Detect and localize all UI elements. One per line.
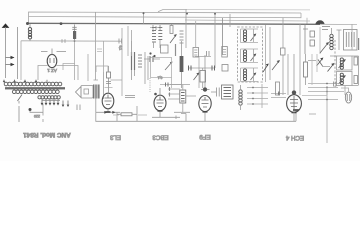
wire EBC3 leads [159,88,161,117]
wire bus right vertical [295,110,297,121]
transformer IFT2 box to EF9 [222,85,234,99]
wire EL3 right rail [111,28,123,96]
component small near speaker [77,105,80,111]
wire vertical x88 [87,54,89,81]
resistor R1 vertical [73,31,76,39]
coil IFT1 winding c [243,69,246,81]
resistor R8 vertical near EBC3 [180,56,184,72]
node bus end [293,109,299,111]
wire AZ1 top lead [41,49,66,55]
wire verticals right of ECH4 [312,54,317,85]
wire EF9 bottom left branch [181,114,186,122]
node EBC3 grid dot [154,93,157,96]
node ECH4 bottom junction [292,112,297,114]
wire C12 link [144,58,160,60]
tube EF9 envelope [199,96,211,112]
resistor R12 stack [310,31,315,37]
plug P1 mains dot [29,108,32,111]
potentiometer VR1 [165,62,172,70]
node EBC3 cathode junction [158,110,163,112]
wire vertical x143.5 [143,13,145,24]
node junction on AVC [214,13,216,15]
capacitor tuning gang C1b arrow [6,64,15,66]
wire speaker leads [96,72,104,112]
transformer T1 secondary HT winding [12,90,59,94]
wire dashed column x150 [149,78,151,92]
wire R1 drop [74,41,76,80]
capacitor tick ECH4 left [278,92,280,96]
node heater left junction [26,22,29,25]
wire EL3 top lead [108,66,110,93]
label tiny by R10 [113,114,147,116]
wire ECH4 leads [293,54,295,121]
resistor R15 vertical below [200,71,206,83]
wire heater line dark [27,23,320,24]
svg-text:ECH 4: ECH 4 [285,134,304,141]
wire y56.5 EF9 top [195,56,211,58]
transformer T2 output hatched [93,85,100,99]
svg-text:ANC Mod. R841: ANC Mod. R841 [23,131,71,138]
node knots detector [149,52,151,54]
switch S1 mains [18,95,23,102]
box rectifier section [38,66,78,81]
capacitor trimmer box ECH4 [281,48,286,55]
arrows on coils [339,60,346,68]
wire plate line top step [158,10,187,12]
wire plug leads [30,104,43,122]
jack pickup right [345,92,351,103]
box IFT1 shield dashed [238,27,263,82]
arrows oscillator section [272,61,279,70]
label column tiny values a [152,28,156,43]
lamp dial lamp [316,20,325,24]
tube ECH4 electrodes [290,96,298,111]
wire coil column leads [240,85,242,110]
label tiny 300 [309,113,316,115]
capacitor C12 [150,56,153,62]
wire vertical x128 x131 [128,26,132,56]
wire terminal rail [261,84,263,108]
antenna A [3,24,9,28]
arrow trimmer mid [170,35,176,43]
arrow small mid [194,74,199,81]
svg-text:EF9: EF9 [199,133,211,140]
resistor R16 left of ECH4 [276,82,280,95]
wire bottom link [96,112,120,121]
node junction R1/y41 [74,40,76,42]
tube EF9 top cap [203,88,207,92]
tube ECH4 top cap [292,91,296,95]
arrow trimmer top right [320,43,328,53]
resistor R9 grid stopper above EL3 [107,72,111,78]
wire R1 leads [74,25,76,42]
wire terminal rows right of ECH4 [308,84,338,100]
wire IFT1 group c frame [241,68,259,82]
box oscillator coil assembly dashed [334,40,336,87]
transformer T1 primary winding [4,82,62,86]
wire heater bus under T1 [42,99,60,101]
wire T1 secondary taps with arrows [42,99,58,105]
resistor R10 horizontal [121,113,132,116]
wire R15 leads [202,68,204,88]
wire x338/345 short [327,86,345,95]
wire jack lead [338,88,349,92]
wire EL3 bottom lead [107,109,109,113]
coil L7 winding [340,73,343,84]
wire antenna lead [5,27,7,78]
capacitor tuning gang C1a arrow [6,57,15,59]
wire links blobs [308,61,330,67]
resistor R4 small [170,26,173,34]
node heater second junction [60,22,63,25]
node EL3 cathode junction [106,111,111,113]
wire y68 link [188,67,215,69]
svg-text:0,1: 0,1 [158,76,163,80]
wire ECH4 grid branch [283,18,288,95]
wire terminal rows right [247,88,268,105]
capacitor IFT1 trimmer arrow b [251,55,256,62]
component marks above EF9 [207,51,210,56]
tube EL3 envelope [102,93,114,109]
arrow marks on speaker return [104,111,107,114]
capacitor C3 marks on y41 [62,39,65,42]
component cluster x150-178 below heater [153,25,160,32]
wire shield inner [63,64,75,71]
capacitor pair on rows [334,82,337,87]
resistor R14 vertical [304,62,308,77]
label EL3 small top mark [105,87,113,89]
svg-text:0,1: 0,1 [118,45,122,50]
coil IFT1 winding a [243,30,246,42]
speaker LS1 frame [81,86,93,99]
node dots on rows [326,83,328,85]
wire x352 vertical [351,24,353,50]
wire VR2 stubs [168,85,196,113]
wire vertical x186 [185,10,187,49]
wire ground rail [17,27,19,79]
wire y84.5 with cap [160,84,182,86]
speaker LS1 magnet [84,89,89,94]
capacitor C8 marks above EL3 [106,82,111,84]
coil antenna choke L1 [28,28,31,40]
svg-text:EBC3: EBC3 [152,134,169,141]
wire vertical x270 [269,27,271,80]
wire top links right coils [330,56,359,86]
coil L5 squiggle [330,34,333,49]
capacitor trimmer box mid [161,45,169,53]
wire x172 drop [171,78,173,89]
wire vertical x103 [103,41,105,72]
tube EL3 electrodes [105,95,112,105]
wire R10 leads [117,106,137,121]
wire y95 link to x327 [302,95,327,97]
svg-text:220: 220 [34,114,40,118]
wire IFT1 group a frame [241,29,259,43]
capacitor trimmer box 1 [193,48,199,58]
wire box1 lead [195,21,197,48]
arrow pair oscillator near ECH4 a [317,59,323,67]
wire R14 leads [305,54,307,85]
wire B+ line [185,20,310,21]
component vertical x175 [175,44,177,56]
transformer T1 heater winding [38,96,60,99]
wire resistor bank leads [132,41,149,84]
svg-text:AZ 1: AZ 1 [47,68,57,73]
coil L6 box [337,56,353,70]
wire y41 long [21,40,122,42]
label tiny near heater [150,27,158,29]
speaker LS1 cone [76,87,82,98]
arrow pair oscillator near ECH4 b [328,64,334,72]
resistor R5 pair vertical [132,52,135,70]
label column tiny values d [180,31,184,43]
wire heater tail right [320,23,357,25]
wire switch lead down [18,101,20,122]
wire ECH4 right branch [299,24,301,95]
wire vertical x222 dark [222,18,224,55]
wire IFT2 link to EF9 [211,91,217,93]
coil L7 box [337,72,353,86]
tube EBC3 electrodes [157,97,164,107]
capacitor trimmer box 2 [222,47,228,58]
svg-text:EL3: EL3 [109,134,121,141]
transformer T1 primary taps arrows [3,80,37,83]
wire IFT1 group b frame [241,49,259,63]
coil IFT1 winding b [243,50,246,62]
box detector stage [151,58,172,78]
wire vertical x215 [214,14,216,68]
capacitor IFT2 left marks [217,88,220,97]
capacitor IFT1 trimmer arrow c [251,74,256,81]
wire vertical x320 [319,27,321,54]
capacitor C14 stub marks [169,87,171,97]
wire vertical x307 [306,18,308,24]
box top right [344,30,358,51]
transformer IFT2 windings [224,88,232,97]
tube AZ1 filament [50,58,54,63]
wire IFT1 right rail [265,25,267,82]
wire plate line faint continuation [187,9,310,11]
capacitor ends y68 [189,66,192,71]
capacitor trimmer box left of IFT1 [222,65,228,72]
tube AZ1 [47,54,57,67]
coil L6 winding [340,58,343,69]
wire screen bus second [29,13,302,18]
label column tiny values b [158,28,162,40]
node junction x143.5 [143,12,145,14]
label tiny near x95 [97,49,102,52]
wire vertical x95.5 [94,12,99,80]
wire EF9 leads [204,55,206,121]
capacitor C4 end of y41 [119,39,122,44]
label tiny 750 by lamp [322,27,330,30]
capacitor IFT1 trimmer arrow a [251,35,256,42]
capacitor padder right a [354,57,358,65]
potentiometer VR2 block right of EBC3 [180,90,186,103]
box tuning section shield [20,41,22,80]
wire ECH4 left stubs [271,94,286,98]
node EF9 cathode junction [203,111,208,113]
wire EBC3 bottom bus [152,116,180,120]
coil band switch column [239,90,242,105]
capacitor C20 label mark [125,96,135,98]
transformer extra pins right [63,101,68,107]
wire vertical x230 [229,14,231,27]
arrow right rail [263,65,268,73]
wire vertical x199 [198,57,200,89]
capacitor padder right b [354,76,358,84]
tube EF9 electrodes [202,97,209,107]
tube EBC3 envelope [154,95,166,111]
transformer T1 core [5,88,65,89]
wire x327 long vertical [326,87,328,143]
label column tiny values c [138,55,142,67]
component right edge mark [358,38,360,50]
node terminal dots [252,87,254,89]
tube ECH4 envelope [287,95,302,113]
wire vertical x305 dark top [303,24,308,54]
wire AVC bus top [29,12,302,24]
wire x171.5 drop [171,24,173,25]
wire leads R4bc [154,40,161,48]
capacitor C2 marks above R1 [72,27,76,29]
wire ground bus bottom [96,112,296,121]
box EL3 coupling [96,66,108,72]
wire L5 leads [332,28,342,50]
wire R8 leads [181,41,183,88]
